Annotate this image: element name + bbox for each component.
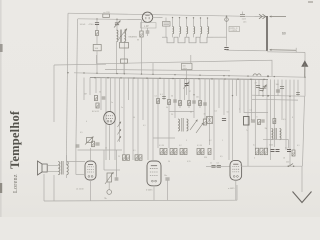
resistor bbox=[260, 148, 263, 155]
wire comb bbox=[174, 78, 176, 118]
resistor pair bbox=[180, 149, 183, 155]
capacitor bbox=[263, 86, 267, 88]
wire OT core bbox=[62, 161, 64, 175]
coil band L6 bbox=[208, 27, 209, 34]
wire bbox=[108, 182, 110, 190]
wire comb bbox=[132, 78, 134, 160]
wire comb bbox=[297, 80, 299, 96]
wire left drop x77 bbox=[76, 19, 78, 150]
wire bbox=[96, 25, 98, 31]
junction bbox=[199, 75, 200, 76]
wire comb bbox=[204, 79, 206, 120]
junction bbox=[193, 94, 194, 95]
wire cap drop bbox=[96, 19, 98, 22]
wire tube left lead bbox=[141, 16, 144, 18]
resistor bbox=[94, 96, 97, 101]
junction bbox=[226, 15, 228, 17]
pot box bbox=[87, 138, 93, 143]
wire h170 bbox=[104, 169, 120, 171]
wire right vertical bbox=[304, 52, 306, 96]
arrow trim bbox=[118, 136, 122, 142]
junction bus bbox=[172, 78, 174, 80]
wire second rail bbox=[78, 18, 142, 21]
junction bbox=[262, 95, 263, 96]
junction bbox=[289, 96, 290, 97]
capacitor bbox=[102, 97, 106, 99]
junction bbox=[223, 75, 224, 76]
capacitor electrolytic bbox=[222, 118, 226, 120]
wire grid V4 bbox=[76, 174, 85, 176]
junction bus bbox=[120, 77, 122, 79]
wire comb bbox=[193, 79, 195, 118]
ground arrow bbox=[293, 192, 312, 203]
resistor bbox=[264, 148, 267, 155]
wire coil tap bbox=[193, 18, 195, 27]
capacitor bbox=[287, 150, 291, 152]
wire comb bbox=[243, 79, 245, 113]
capacitor electrolytic2 bbox=[276, 150, 280, 152]
wire comb bbox=[163, 78, 165, 100]
junction bbox=[304, 77, 305, 78]
capacitor jack bbox=[115, 178, 119, 180]
junction bus bbox=[146, 77, 148, 79]
wire top rail bbox=[68, 13, 266, 16]
box relay bbox=[244, 117, 250, 126]
wire comb bbox=[110, 78, 112, 112]
capacitor 10n bbox=[165, 178, 169, 180]
resistor bbox=[168, 100, 171, 105]
junction bbox=[232, 95, 233, 96]
capacitor tube bbox=[146, 31, 150, 33]
box tube label bbox=[141, 23, 157, 28]
coil OT secondary bbox=[67, 161, 69, 174]
wire comb bbox=[262, 79, 264, 96]
wire bbox=[147, 33, 149, 36]
resistor pair bbox=[170, 149, 173, 155]
wire OT core bbox=[61, 161, 63, 175]
wire comb bbox=[289, 80, 291, 166]
wire comb bbox=[239, 79, 241, 113]
junction bbox=[274, 76, 275, 77]
wire drop bbox=[288, 140, 290, 148]
wire comb bbox=[285, 80, 287, 150]
wire bbox=[116, 42, 118, 74]
wire bbox=[96, 51, 98, 74]
wire bbox=[116, 150, 118, 176]
wire comb bbox=[199, 79, 201, 108]
wire comb bbox=[137, 78, 139, 155]
wire link y139 bbox=[263, 138, 289, 140]
capacitor bbox=[173, 100, 177, 102]
capacitor bbox=[261, 120, 264, 122]
wire coil stub bbox=[179, 34, 181, 38]
arrow IFT2 trim bbox=[190, 120, 198, 131]
wire bbox=[123, 42, 125, 74]
trimmer cap on rail bbox=[240, 15, 245, 17]
wire comb bbox=[114, 78, 116, 160]
box filter bbox=[120, 43, 129, 49]
junction bbox=[116, 18, 118, 20]
capacitor bbox=[251, 120, 255, 122]
output tube V4 bbox=[85, 161, 96, 180]
wire bbox=[226, 49, 228, 52]
mixer tube V2 bbox=[104, 112, 116, 125]
resistor bbox=[96, 31, 99, 36]
junction bus right bbox=[267, 75, 269, 77]
wire choke core bbox=[274, 128, 276, 140]
arrow trimmer bbox=[262, 85, 267, 92]
arrow trim 47n bbox=[184, 82, 190, 89]
wire cap2 drop bbox=[116, 19, 118, 22]
wire comb bbox=[293, 80, 295, 150]
wire link bbox=[153, 137, 175, 139]
wire x68 to tube bbox=[66, 161, 85, 163]
wire rail A drop bbox=[53, 65, 55, 122]
tuning gang bar bbox=[266, 16, 268, 51]
wire comb bbox=[213, 79, 215, 160]
coil OT primary bbox=[58, 161, 60, 174]
arrow coupling bbox=[118, 29, 127, 41]
coil band L4 bbox=[194, 27, 195, 34]
resistor bbox=[208, 149, 211, 155]
box dial label bbox=[229, 27, 240, 32]
wire end tick bbox=[295, 48, 297, 53]
wire comb bbox=[281, 80, 283, 120]
junction bus bbox=[94, 77, 96, 79]
resistor pair bbox=[139, 155, 142, 161]
junction bus bbox=[250, 78, 252, 80]
wire rail B bbox=[105, 70, 230, 71]
wire comb bbox=[235, 79, 237, 96]
wire h150 bbox=[78, 149, 123, 151]
resistor bbox=[157, 99, 160, 104]
junction bus bbox=[224, 78, 226, 80]
wire bbox=[165, 26, 167, 37]
rectifier tube V1 bbox=[142, 12, 152, 22]
wire bottom rail bbox=[44, 199, 237, 202]
capacitor bbox=[217, 166, 221, 168]
junction bbox=[174, 74, 175, 75]
arrow trim bbox=[118, 122, 122, 128]
wire bbox=[123, 63, 125, 74]
wire comb bbox=[168, 78, 170, 148]
wire tube V2 bottom bbox=[109, 125, 111, 160]
capacitor padder bbox=[224, 48, 228, 50]
wire OT lead down bbox=[53, 175, 55, 201]
junction bus bbox=[133, 77, 135, 79]
wire rail A bbox=[54, 63, 106, 66]
wire comb bbox=[266, 79, 268, 150]
wire y52 right bbox=[267, 51, 305, 54]
wire main bus C bbox=[74, 73, 305, 77]
wire comb bbox=[188, 79, 190, 108]
junction bus bbox=[237, 78, 239, 80]
junction bbox=[152, 74, 153, 75]
junction bus bbox=[107, 77, 109, 79]
wire comb bbox=[128, 78, 130, 100]
wire coil tap bbox=[179, 18, 181, 27]
coil band L3 bbox=[187, 27, 188, 34]
junction bbox=[96, 18, 98, 20]
junction bus bbox=[159, 78, 161, 80]
wire rail E right bbox=[252, 95, 305, 96]
brand text Lorenz bbox=[13, 174, 19, 193]
wire coil tap bbox=[200, 18, 202, 27]
wire comb bbox=[147, 78, 149, 160]
scan artifact bbox=[0, 44, 3, 52]
wire comb bbox=[105, 78, 107, 160]
wire link bbox=[244, 112, 268, 114]
wire comb bbox=[270, 79, 272, 160]
coil output choke bbox=[272, 129, 273, 140]
arrow variable cap bbox=[114, 21, 121, 28]
wire coil stub bbox=[200, 34, 202, 38]
coil on bus bbox=[253, 74, 261, 76]
arrow pot2 bbox=[105, 172, 114, 184]
capacitor coupling bbox=[95, 143, 99, 145]
wire V5 cathode bbox=[153, 186, 155, 201]
brand text Tempelhof bbox=[8, 110, 23, 168]
wire comb bbox=[119, 78, 121, 142]
resistor switch bbox=[140, 31, 143, 37]
capacitor variable bbox=[115, 23, 119, 25]
box coil label bbox=[163, 22, 171, 27]
wire to V6 grid bbox=[206, 165, 230, 167]
resistor bbox=[255, 148, 258, 155]
wire V6 right bbox=[240, 163, 242, 166]
jack circle bbox=[107, 190, 112, 195]
wire bbox=[226, 16, 228, 46]
wire coil tap bbox=[207, 18, 209, 26]
wire comb bbox=[123, 78, 125, 155]
wire spk bot bbox=[47, 171, 58, 173]
junction bus bbox=[185, 78, 187, 80]
wire comb bbox=[152, 78, 154, 160]
arrow gang bottom right bbox=[270, 49, 297, 51]
wire tube bottom lead2 bbox=[147, 28, 149, 31]
wire choke core bbox=[275, 128, 277, 140]
coil IFT2 secondary bbox=[187, 119, 189, 131]
speaker bbox=[42, 164, 47, 172]
junction bbox=[172, 17, 173, 18]
arrow gang top right bbox=[270, 16, 287, 18]
wire bbox=[167, 180, 169, 200]
switch wafer band selector bbox=[162, 37, 213, 43]
capacitor bbox=[296, 93, 300, 95]
wire bbox=[116, 170, 118, 180]
wire IFT2 core bbox=[182, 118, 184, 132]
box oscillator label bbox=[182, 63, 193, 69]
capacitor 47 bbox=[256, 86, 260, 88]
coil output choke2 bbox=[280, 129, 281, 140]
wire IFT core bbox=[119, 30, 121, 43]
resistor pair bbox=[174, 149, 177, 155]
junction bbox=[186, 17, 187, 18]
wire coil tap bbox=[186, 18, 188, 27]
wire rail E2 bbox=[252, 98, 298, 101]
coil band L5 bbox=[201, 27, 202, 34]
wire bbox=[165, 17, 167, 21]
wire coil stub bbox=[207, 34, 209, 38]
junction bbox=[207, 17, 208, 18]
junction bbox=[247, 75, 248, 76]
resistor grid bbox=[92, 141, 95, 147]
wire bbox=[141, 37, 143, 74]
coil IFT1 secondary bbox=[124, 30, 125, 42]
coil IFT2 primary bbox=[178, 119, 180, 131]
wire bus D bbox=[90, 78, 268, 80]
screen box bbox=[97, 55, 273, 76]
junction bus bbox=[263, 79, 265, 81]
resistor bbox=[199, 101, 202, 106]
resistor bbox=[179, 101, 182, 106]
junction bbox=[96, 73, 97, 74]
junction bbox=[200, 17, 201, 18]
wire comb bbox=[209, 79, 211, 145]
junction bus bbox=[198, 78, 200, 80]
wire bottom right rail bbox=[241, 165, 302, 167]
wire comb bbox=[247, 79, 249, 166]
resistor pair bbox=[135, 155, 138, 161]
junction bbox=[116, 73, 117, 74]
wire right edge down bbox=[303, 97, 305, 167]
junction bbox=[124, 73, 125, 74]
wire V4 cathode bbox=[90, 180, 92, 201]
wire comb bbox=[223, 79, 225, 115]
wire comb bbox=[273, 79, 275, 147]
volume pot bbox=[107, 173, 112, 182]
wire speaker down bbox=[43, 174, 45, 201]
wire coil stub bbox=[193, 34, 195, 38]
capacitor bbox=[276, 90, 280, 92]
scan artifact edge strip bbox=[0, 0, 2, 217]
wire bbox=[96, 36, 98, 44]
resistor pair bbox=[127, 155, 130, 161]
resistor pair bbox=[123, 155, 126, 161]
scan artifact bbox=[0, 183, 2, 193]
capacitor bbox=[192, 101, 196, 103]
antenna arrow bbox=[301, 60, 308, 66]
wire link bbox=[169, 111, 194, 113]
junction bbox=[228, 75, 229, 76]
wire OT sec down bbox=[66, 175, 68, 178]
wire comb bbox=[95, 78, 97, 93]
capacitor bbox=[203, 103, 207, 105]
wire tube right lead bbox=[153, 16, 163, 18]
resistor bbox=[188, 101, 191, 106]
capacitor blocking bbox=[95, 23, 99, 25]
junction bbox=[83, 72, 84, 73]
coil band L2 bbox=[180, 27, 181, 34]
junction bus bbox=[211, 78, 213, 80]
wire bbox=[141, 20, 143, 31]
wire comb bbox=[100, 78, 102, 110]
wire comb bbox=[232, 79, 234, 160]
arrow gang top double chevron bbox=[259, 14, 266, 19]
capacitor bbox=[280, 87, 284, 89]
arrow IFT2 trim2 bbox=[196, 123, 204, 134]
arrow trim bbox=[118, 129, 122, 135]
wire IFT2 core bbox=[181, 118, 183, 132]
wire bbox=[116, 25, 118, 31]
switch mains bbox=[289, 164, 293, 167]
wire IFT core bbox=[121, 30, 123, 43]
capacitor bbox=[211, 166, 215, 168]
wire coil stub bbox=[186, 34, 188, 38]
wire coil tap bbox=[172, 18, 174, 27]
junction bbox=[267, 95, 269, 97]
fuse box Si bbox=[103, 14, 110, 17]
trimmer circle bbox=[225, 18, 229, 22]
wire comb bbox=[218, 79, 220, 108]
wire comb bbox=[179, 79, 181, 108]
capacitor 47n bbox=[184, 84, 188, 86]
coil IFT1 primary bbox=[117, 30, 118, 42]
junction bbox=[193, 17, 194, 18]
small box comp bbox=[121, 59, 128, 63]
scan artifact bbox=[308, 1, 313, 3]
resistor bbox=[258, 120, 261, 125]
junction bbox=[179, 17, 180, 18]
capacitor electrolytic bbox=[271, 150, 275, 152]
wire comb bbox=[142, 78, 144, 120]
wire spk top bbox=[47, 165, 58, 167]
resistor bbox=[203, 119, 206, 125]
wire box down bbox=[186, 70, 188, 95]
wire comb bbox=[228, 79, 230, 160]
junction bbox=[141, 73, 142, 74]
wire switch out bbox=[213, 36, 227, 38]
rectifier tube V6 bbox=[230, 160, 242, 180]
wire bbox=[75, 150, 77, 175]
wire left drop from top rail bbox=[66, 13, 68, 165]
wire comb bbox=[258, 79, 260, 96]
wire OT top bbox=[66, 155, 68, 162]
wire right down bbox=[301, 166, 303, 192]
box detector bbox=[207, 117, 213, 124]
wire V6 up bbox=[236, 185, 238, 200]
capacitor 47b bbox=[259, 89, 263, 91]
wire V6 cathode bbox=[235, 180, 237, 200]
resistor bbox=[292, 150, 295, 156]
wire comb bbox=[83, 78, 85, 100]
wire padder to bar bbox=[227, 49, 268, 52]
wire comb bbox=[254, 79, 256, 150]
resistor bbox=[273, 119, 276, 124]
resistor pair bbox=[197, 149, 200, 155]
wire comb bbox=[157, 78, 159, 148]
wire comb bbox=[251, 79, 253, 120]
wire box feed bbox=[190, 55, 192, 63]
wire comb bbox=[89, 78, 91, 95]
resistor pair bbox=[164, 149, 167, 155]
box resistor 100 bbox=[93, 45, 101, 51]
capacitor bbox=[162, 97, 166, 99]
junction bbox=[67, 72, 68, 73]
coil band L1 bbox=[173, 27, 174, 34]
resistor pair bbox=[201, 149, 204, 155]
wire comb bbox=[277, 79, 279, 96]
wire bbox=[103, 150, 105, 170]
AF tube V5 bbox=[147, 161, 161, 186]
capacitor bbox=[76, 145, 80, 147]
resistor pair bbox=[160, 149, 163, 155]
resistor bbox=[96, 103, 99, 108]
arrow pot bbox=[85, 137, 94, 145]
wire coil stub bbox=[172, 34, 174, 38]
wire comb bbox=[184, 79, 186, 100]
wire V4 top bbox=[90, 148, 92, 161]
